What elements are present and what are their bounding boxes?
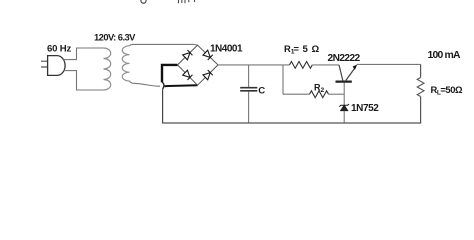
capacitor C bottom lead	[248, 91, 250, 123]
wire hop over AC wire	[162, 82, 164, 89]
zener diode 1N752	[339, 104, 349, 111]
transistor Q1 collector lead	[339, 65, 343, 81]
svg-text:100 mA: 100 mA	[428, 50, 461, 61]
capacitor C plates	[240, 88, 257, 91]
svg-text:RL=50Ω: RL=50Ω	[431, 84, 463, 97]
diode D2 (upper-right)	[203, 50, 213, 60]
wire secondary bottom toward bridge (AC)	[130, 81, 161, 86]
wire secondary top to bridge top corner	[130, 44, 198, 45]
svg-text:C: C	[258, 86, 265, 97]
wire bridge left corner to negative rail (thick)	[162, 65, 178, 82]
transistor Q1 base lead down	[343, 83, 345, 105]
wire R2 branch horizontal	[283, 93, 310, 95]
cropped text fragment top-right	[179, 0, 195, 3]
wire emitter to load	[357, 63, 421, 65]
svg-text:60 Hz: 60 Hz	[47, 44, 71, 55]
svg-text:R1=5Ω: R1=5Ω	[284, 43, 320, 56]
wire plug to primary top	[64, 48, 104, 60]
plug P1 prongs	[41, 61, 48, 67]
svg-text:1N752: 1N752	[351, 103, 379, 114]
svg-text:1N4001: 1N4001	[210, 44, 243, 55]
wire bridge right corner to R1 (positive rail)	[218, 64, 290, 66]
node capacitor tap	[248, 65, 250, 87]
wire R2 to zener node	[329, 93, 345, 95]
wire AC to bridge bottom corner (thick)	[165, 85, 198, 86]
resistor RL	[417, 78, 424, 97]
transistor Q1 base bar	[336, 80, 352, 82]
wire negative rail vertical	[162, 89, 164, 123]
diode D3 (lower-left)	[183, 70, 193, 80]
diode D4 (lower-right)	[203, 70, 213, 80]
resistor R2	[310, 91, 329, 98]
transformer T1 secondary winding	[122, 46, 129, 81]
transformer T1 primary winding	[104, 48, 111, 90]
cropped text fragment top-left	[141, 0, 146, 3]
bottom rail (ground return)	[162, 122, 421, 124]
resistor R1	[290, 62, 313, 69]
transistor Q1 emitter lead with arrow	[346, 69, 355, 81]
zener bottom lead	[343, 111, 345, 123]
wire R1 to transistor collector	[312, 64, 339, 66]
svg-text:120V: 6.3V: 120V: 6.3V	[94, 32, 136, 43]
diode D1 (upper-left)	[183, 50, 193, 60]
node R2 tap	[282, 65, 284, 94]
plug P1 body	[48, 56, 66, 76]
bridge rectifier edges	[178, 45, 219, 85]
wire plug to primary bottom	[64, 71, 104, 90]
svg-text:2N2222: 2N2222	[328, 53, 361, 64]
load branch top lead	[420, 64, 422, 77]
load branch bottom lead	[420, 97, 422, 124]
